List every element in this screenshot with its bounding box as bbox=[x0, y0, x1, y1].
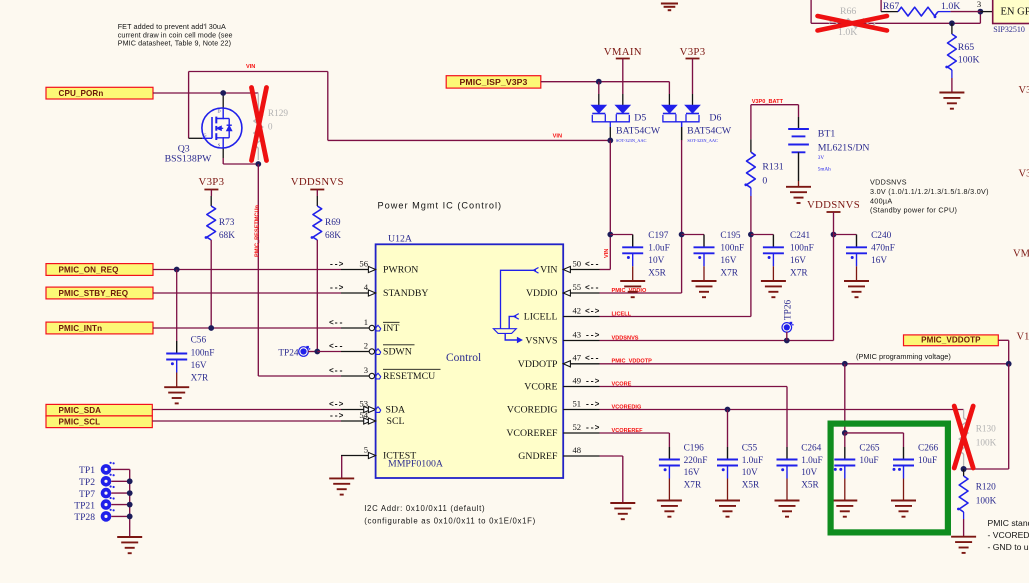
svg-text:16V: 16V bbox=[720, 256, 736, 266]
svg-text:R69: R69 bbox=[325, 218, 341, 228]
svg-text:10uF: 10uF bbox=[859, 456, 878, 466]
svg-text:470nF: 470nF bbox=[871, 244, 895, 254]
svg-text:4: 4 bbox=[364, 282, 369, 292]
svg-text:VIN: VIN bbox=[604, 249, 610, 258]
svg-text:TP21: TP21 bbox=[74, 500, 95, 511]
svg-text:SOT-323N_AAC: SOT-323N_AAC bbox=[616, 138, 647, 143]
svg-text:3.0V (1.0/1.1/1.2/1.3/1.5/1.8/: 3.0V (1.0/1.1/1.2/1.3/1.5/1.8/3.0V) bbox=[870, 187, 989, 196]
svg-text:PMIC_ISP_V3P3: PMIC_ISP_V3P3 bbox=[460, 77, 528, 87]
svg-text:<--: <-- bbox=[585, 284, 599, 293]
svg-text:STANDBY: STANDBY bbox=[383, 288, 428, 299]
svg-text:16V: 16V bbox=[871, 256, 887, 266]
svg-text:1.0uF: 1.0uF bbox=[801, 456, 822, 466]
svg-text:X7R: X7R bbox=[191, 374, 209, 384]
svg-text:D6: D6 bbox=[709, 112, 721, 123]
svg-text:VCOREREF: VCOREREF bbox=[506, 428, 558, 439]
svg-text:CPU_PORn: CPU_PORn bbox=[59, 89, 104, 98]
svg-text:PMIC datasheet, Table 9, Note: PMIC datasheet, Table 9, Note 22) bbox=[118, 39, 231, 48]
svg-text:-->: --> bbox=[585, 331, 600, 340]
svg-text:R73: R73 bbox=[219, 218, 235, 228]
svg-text:C241: C241 bbox=[790, 231, 810, 241]
svg-text:C195: C195 bbox=[720, 231, 740, 241]
svg-text:X7R: X7R bbox=[684, 481, 702, 491]
svg-text:VDDOTP: VDDOTP bbox=[518, 359, 558, 370]
svg-text:68K: 68K bbox=[219, 231, 235, 241]
svg-text:<->: <-> bbox=[585, 307, 600, 316]
svg-text:I2C Addr: 0x10/0x11 (default): I2C Addr: 0x10/0x11 (default) bbox=[364, 504, 485, 513]
svg-text:X5R: X5R bbox=[742, 481, 760, 491]
svg-text:BAT54CW: BAT54CW bbox=[687, 126, 732, 137]
svg-text:TP26: TP26 bbox=[783, 300, 793, 320]
svg-text:1.0K: 1.0K bbox=[838, 27, 857, 38]
svg-text:50: 50 bbox=[573, 258, 582, 268]
svg-text:VDDIO: VDDIO bbox=[526, 288, 558, 299]
svg-text:<--: <-- bbox=[329, 367, 343, 376]
svg-text:0: 0 bbox=[268, 123, 273, 133]
svg-text:SDWN: SDWN bbox=[383, 347, 412, 358]
svg-text:<--: <-- bbox=[329, 319, 343, 328]
svg-text:SDA: SDA bbox=[386, 405, 406, 416]
svg-text:400µA: 400µA bbox=[870, 196, 892, 205]
svg-text:PMIC_STBY_REQ: PMIC_STBY_REQ bbox=[59, 289, 129, 298]
svg-text:X7R: X7R bbox=[720, 269, 738, 279]
svg-text:C265: C265 bbox=[859, 443, 879, 453]
svg-text:3: 3 bbox=[977, 0, 981, 9]
svg-text:C55: C55 bbox=[742, 443, 758, 453]
svg-text:(PMIC programming voltage): (PMIC programming voltage) bbox=[856, 352, 951, 361]
svg-text:R67: R67 bbox=[883, 1, 899, 12]
svg-text:56: 56 bbox=[359, 258, 368, 268]
svg-text:R65: R65 bbox=[958, 42, 974, 53]
svg-text:RESETMCU: RESETMCU bbox=[383, 371, 435, 382]
svg-text:10uF: 10uF bbox=[918, 456, 937, 466]
svg-text:-->: --> bbox=[329, 260, 344, 269]
svg-text:48: 48 bbox=[573, 445, 582, 455]
svg-text:TP2: TP2 bbox=[79, 477, 95, 488]
svg-text:X5R: X5R bbox=[648, 269, 666, 279]
svg-text:10V: 10V bbox=[648, 256, 664, 266]
svg-text:(configurable as 0x10/0x11 to: (configurable as 0x10/0x11 to 0x1E/0x1F) bbox=[364, 517, 536, 526]
svg-text:G: G bbox=[203, 133, 206, 138]
svg-text:100nF: 100nF bbox=[191, 348, 215, 358]
svg-text:D5: D5 bbox=[634, 112, 646, 123]
svg-text:SCL: SCL bbox=[387, 416, 405, 427]
svg-text:V3P3: V3P3 bbox=[1019, 169, 1029, 180]
svg-text:INT: INT bbox=[383, 323, 399, 334]
svg-text:C240: C240 bbox=[871, 231, 891, 241]
svg-text:PMIC_INTn: PMIC_INTn bbox=[59, 324, 103, 333]
svg-text:PMIC_ON_REQ: PMIC_ON_REQ bbox=[59, 265, 119, 274]
svg-text:VMAIN: VMAIN bbox=[604, 46, 642, 58]
svg-text:<--: <-- bbox=[329, 342, 343, 351]
svg-text:1.0K: 1.0K bbox=[941, 1, 960, 12]
svg-text:10V: 10V bbox=[801, 468, 817, 478]
svg-text:VDDSNVS: VDDSNVS bbox=[807, 199, 860, 211]
svg-text:16V: 16V bbox=[684, 468, 700, 478]
svg-text:47: 47 bbox=[573, 353, 582, 363]
svg-text:BT1: BT1 bbox=[818, 129, 836, 140]
svg-text:V3P3: V3P3 bbox=[680, 46, 706, 58]
svg-text:R129: R129 bbox=[268, 109, 288, 119]
svg-text:16V: 16V bbox=[191, 361, 207, 371]
svg-text:R66: R66 bbox=[840, 6, 856, 17]
svg-text:16V: 16V bbox=[790, 256, 806, 266]
svg-text:VMAIN: VMAIN bbox=[1013, 249, 1029, 260]
svg-text:C56: C56 bbox=[191, 336, 207, 346]
svg-text:PMIC_VDDOTP: PMIC_VDDOTP bbox=[921, 336, 981, 345]
svg-text:SOT-323N_AAC: SOT-323N_AAC bbox=[687, 138, 718, 143]
svg-text:2: 2 bbox=[364, 340, 368, 350]
svg-text:VCORE: VCORE bbox=[524, 382, 557, 393]
svg-text:<--: <-- bbox=[585, 355, 599, 364]
svg-text:C264: C264 bbox=[801, 443, 821, 453]
svg-text:VDDSNVS: VDDSNVS bbox=[870, 178, 907, 187]
svg-text:<->: <-> bbox=[329, 400, 344, 409]
svg-text:BAT54CW: BAT54CW bbox=[616, 126, 661, 137]
svg-text:49: 49 bbox=[573, 375, 582, 385]
svg-text:-->: --> bbox=[329, 284, 344, 293]
svg-text:VDDSNVS: VDDSNVS bbox=[291, 176, 344, 188]
svg-text:100nF: 100nF bbox=[720, 244, 744, 254]
svg-text:54: 54 bbox=[359, 410, 368, 420]
svg-text:VCOREDIG: VCOREDIG bbox=[507, 405, 558, 416]
svg-text:-->: --> bbox=[329, 412, 344, 421]
svg-text:43: 43 bbox=[573, 329, 582, 339]
svg-text:Control: Control bbox=[446, 352, 481, 364]
svg-text:100nF: 100nF bbox=[790, 244, 814, 254]
svg-text:- VCOREDIG: - VCOREDIG bbox=[988, 530, 1029, 540]
svg-text:R120: R120 bbox=[976, 483, 996, 493]
svg-text:TP7: TP7 bbox=[79, 489, 95, 500]
svg-text:V1P5: V1P5 bbox=[1017, 332, 1029, 343]
svg-text:-->: --> bbox=[585, 377, 600, 386]
svg-text:D: D bbox=[217, 109, 220, 114]
svg-text:PMIC_SCL: PMIC_SCL bbox=[59, 418, 101, 427]
svg-text:TP24: TP24 bbox=[278, 348, 298, 358]
svg-text:LICELL: LICELL bbox=[524, 312, 558, 323]
svg-text:52: 52 bbox=[573, 422, 582, 432]
svg-text:EN GP: EN GP bbox=[1001, 7, 1029, 18]
svg-text:VIN: VIN bbox=[553, 134, 562, 140]
svg-text:0: 0 bbox=[762, 175, 767, 186]
svg-text:R131: R131 bbox=[762, 162, 783, 173]
svg-text:5mAh: 5mAh bbox=[818, 166, 831, 172]
svg-text:<--: <-- bbox=[585, 260, 599, 269]
svg-text:PMIC_SDA: PMIC_SDA bbox=[59, 406, 102, 415]
svg-text:-->: --> bbox=[585, 424, 600, 433]
svg-text:3: 3 bbox=[364, 365, 368, 375]
svg-text:1.0uF: 1.0uF bbox=[742, 456, 763, 466]
svg-text:PMIC_RESETMCUn: PMIC_RESETMCUn bbox=[255, 205, 261, 257]
svg-text:53: 53 bbox=[359, 398, 368, 408]
svg-text:100K: 100K bbox=[976, 497, 997, 507]
svg-text:100K: 100K bbox=[958, 54, 980, 65]
svg-text:TP28: TP28 bbox=[74, 512, 95, 523]
svg-text:VIN: VIN bbox=[540, 265, 557, 276]
svg-text:BSS138PW: BSS138PW bbox=[165, 153, 213, 164]
svg-text:100K: 100K bbox=[976, 439, 997, 449]
svg-text:42: 42 bbox=[573, 305, 582, 315]
svg-text:SIP32510: SIP32510 bbox=[993, 25, 1025, 34]
svg-text:51: 51 bbox=[573, 398, 582, 408]
svg-text:VIN: VIN bbox=[246, 64, 255, 70]
svg-text:X7R: X7R bbox=[790, 269, 808, 279]
svg-text:- GND to use: - GND to use bbox=[988, 542, 1029, 552]
svg-text:PMIC standby: PMIC standby bbox=[988, 518, 1029, 528]
svg-text:V3P3: V3P3 bbox=[198, 176, 224, 188]
svg-text:Power Mgmt IC (Control): Power Mgmt IC (Control) bbox=[378, 201, 503, 211]
svg-text:X5R: X5R bbox=[801, 481, 819, 491]
svg-text:(Standby power for CPU): (Standby power for CPU) bbox=[870, 206, 957, 215]
svg-text:220nF: 220nF bbox=[684, 456, 708, 466]
svg-text:3V: 3V bbox=[818, 155, 825, 161]
svg-text:-->: --> bbox=[585, 400, 600, 409]
svg-text:U12A: U12A bbox=[388, 234, 412, 245]
svg-text:55: 55 bbox=[573, 282, 582, 292]
svg-text:C266: C266 bbox=[918, 443, 938, 453]
svg-text:68K: 68K bbox=[325, 231, 341, 241]
svg-text:1: 1 bbox=[364, 317, 368, 327]
svg-text:C197: C197 bbox=[648, 231, 668, 241]
svg-text:ICTEST: ICTEST bbox=[383, 451, 416, 462]
svg-text:GNDREF: GNDREF bbox=[518, 451, 558, 462]
svg-text:V3P3: V3P3 bbox=[1019, 85, 1029, 96]
svg-text:C196: C196 bbox=[684, 443, 704, 453]
svg-text:ML621S/DN: ML621S/DN bbox=[818, 143, 870, 154]
svg-text:1.0uF: 1.0uF bbox=[648, 244, 669, 254]
svg-text:PWRON: PWRON bbox=[383, 265, 418, 276]
svg-text:VSNVS: VSNVS bbox=[525, 336, 557, 347]
svg-text:10V: 10V bbox=[742, 468, 758, 478]
svg-text:TP1: TP1 bbox=[79, 465, 95, 476]
svg-text:5: 5 bbox=[364, 444, 368, 454]
svg-text:R130: R130 bbox=[976, 425, 996, 435]
